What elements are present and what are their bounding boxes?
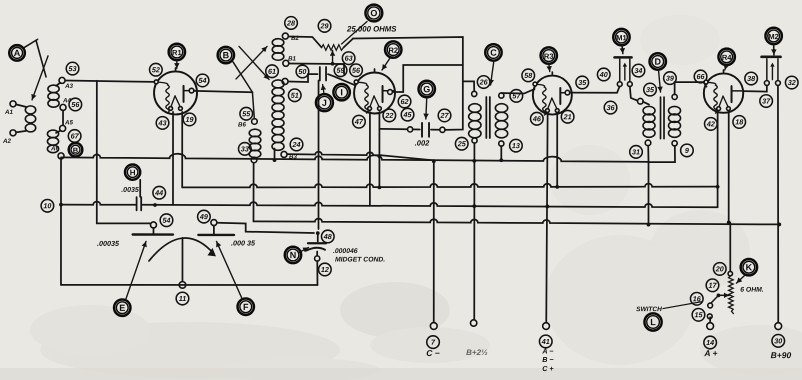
wire grid condenser to tube V2	[328, 74, 356, 85]
label 46	[531, 112, 544, 125]
svg-text:24: 24	[292, 140, 301, 149]
label 14	[704, 336, 717, 349]
bus 4 (B plus)	[253, 219, 779, 225]
svg-text:M2: M2	[768, 32, 778, 41]
label 21	[561, 110, 574, 123]
label 52	[150, 63, 163, 76]
wire branch to IF primary top	[463, 81, 474, 91]
label 55	[240, 107, 253, 120]
arrow F to condenser 49	[216, 241, 242, 298]
switch pointer line	[663, 302, 702, 309]
terminal V1 plate	[189, 88, 194, 93]
arrow D to transformer	[657, 71, 662, 93]
terminal IF primary bottom	[472, 138, 477, 143]
terminal A5	[60, 125, 66, 131]
arrow J to grid condenser	[321, 84, 326, 94]
jack M2 prong 1	[766, 59, 768, 81]
label 20	[713, 263, 726, 276]
label 30	[772, 335, 785, 348]
svg-text:46: 46	[532, 114, 542, 123]
bottom return wire	[61, 284, 318, 286]
wire V2 filament right to bus 2	[378, 112, 380, 187]
label O	[365, 5, 382, 22]
midget condenser top plate	[308, 242, 326, 244]
bus 3 end hook	[714, 206, 718, 208]
label 35 plate	[576, 76, 589, 89]
svg-text:59: 59	[337, 66, 345, 75]
svg-text:49: 49	[199, 212, 208, 221]
terminal B6 bottom	[251, 157, 257, 163]
antenna pointer arrow	[31, 56, 48, 100]
terminal A (antenna binding post)	[9, 45, 25, 61]
terminal 41 A-B-C+	[543, 323, 550, 330]
svg-text:51: 51	[291, 91, 299, 100]
svg-text:B+2½: B+2½	[466, 348, 488, 357]
jack M2 prong 2 tip	[776, 81, 781, 86]
terminal AF secondary bottom	[672, 141, 677, 146]
svg-text:R1: R1	[172, 48, 182, 57]
svg-text:11: 11	[179, 294, 186, 303]
terminal 11	[179, 282, 186, 289]
jack M2 prong 2	[777, 59, 779, 81]
svg-text:67: 67	[71, 131, 80, 140]
wire C- drop	[433, 161, 435, 322]
svg-text:H: H	[130, 168, 136, 177]
svg-text:I: I	[340, 87, 343, 97]
svg-text:A2: A2	[2, 138, 11, 145]
svg-text:38: 38	[747, 74, 755, 83]
label 35 primary	[644, 83, 657, 96]
resistor 25000 ohms	[322, 45, 344, 51]
svg-text:54: 54	[199, 76, 207, 85]
wire .002 to resistor top line	[353, 37, 463, 130]
label 25	[455, 137, 468, 150]
terminal AF primary bottom	[645, 140, 651, 146]
svg-text:62: 62	[401, 97, 409, 106]
arrow G to condenser .002	[423, 98, 429, 119]
wire node 12 to bottom return	[316, 261, 318, 285]
label R1	[169, 44, 185, 60]
label 18	[733, 116, 746, 129]
svg-text:.00035: .00035	[97, 239, 120, 248]
svg-text:O: O	[370, 8, 377, 18]
condenser .002 plate left	[421, 123, 423, 137]
junction C- bus 1	[432, 159, 436, 163]
wire B to junction	[233, 62, 252, 92]
label 57	[510, 90, 523, 103]
arrow N to midget condenser	[299, 247, 309, 252]
svg-text:42: 42	[706, 119, 715, 128]
antenna lead-in wire	[25, 39, 38, 47]
terminal A4	[60, 104, 66, 110]
label 44	[153, 186, 166, 199]
label 45	[401, 108, 414, 121]
svg-text:61: 61	[268, 67, 276, 76]
terminal B (antenna post)	[218, 47, 234, 63]
wire B+90 rail	[777, 85, 779, 322]
wire A5 to coil	[56, 131, 60, 133]
terminal V2 plate	[388, 90, 393, 95]
wire secondary top to grid condenser	[288, 74, 317, 82]
svg-text:35: 35	[578, 78, 587, 87]
svg-text:A1: A1	[4, 109, 13, 116]
svg-text:M1: M1	[616, 33, 626, 42]
svg-text:.000046: .000046	[333, 248, 358, 255]
svg-text:56: 56	[352, 66, 361, 75]
wire resistor left lead	[313, 37, 322, 47]
label D	[650, 53, 666, 69]
wire jack prong 2 to AF transformer primary	[630, 86, 638, 100]
midget condenser stem top	[317, 233, 319, 241]
wire AF return to bus 4	[647, 162, 649, 225]
rheostat wiper junction	[717, 294, 721, 298]
junction 44 on bus 3	[153, 203, 157, 207]
svg-text:13: 13	[512, 141, 520, 150]
label 31	[630, 146, 643, 159]
label 32	[785, 76, 798, 89]
terminal rheostat top	[728, 271, 732, 275]
wire plate up to jack prong	[611, 87, 620, 93]
wire V4 plate to jack M2	[744, 85, 767, 91]
svg-text:27: 27	[440, 111, 450, 120]
bus 3 right segment	[142, 202, 714, 207]
wire B3 to C- line	[288, 152, 382, 156]
jack M1 stem	[620, 45, 625, 53]
terminal 14 A+	[707, 323, 714, 330]
label 26	[477, 76, 490, 89]
grid condenser plate right	[325, 67, 327, 80]
terminal IF secondary bottom	[499, 141, 504, 146]
rheostat 6 ohm	[729, 276, 734, 314]
terminal IF secondary top	[499, 93, 504, 98]
label 39	[664, 72, 677, 85]
grid condenser plate left	[319, 67, 321, 81]
jack M1 prong 1	[619, 59, 621, 82]
label 49	[198, 210, 211, 223]
wire resistor right lead	[344, 38, 354, 47]
jack M1 plug blade	[624, 66, 626, 80]
wire switch to terminal 14	[709, 317, 711, 322]
label G	[419, 81, 435, 97]
junction line A at V2 lead	[378, 154, 382, 158]
midget condenser stem bottom	[316, 251, 318, 256]
label 56 grid	[350, 64, 363, 77]
arrow R4 to tube top	[724, 64, 729, 70]
terminal AF secondary top	[672, 94, 677, 99]
label I	[333, 84, 349, 100]
label J	[316, 94, 333, 111]
svg-text:40: 40	[599, 70, 608, 79]
svg-text:22: 22	[384, 111, 393, 120]
svg-text:53: 53	[69, 64, 77, 73]
svg-text:63: 63	[345, 54, 353, 63]
wire bus 4 down to rheostat	[729, 223, 731, 272]
junction A6 rail / bus 3	[59, 203, 63, 207]
wire V2 lead to condenser .002	[379, 128, 407, 130]
svg-text:47: 47	[354, 117, 364, 126]
svg-text:56: 56	[71, 100, 80, 109]
wire V4 filament right to bus 4	[728, 112, 730, 223]
wire bend down	[343, 64, 345, 74]
arrow C to transformer	[489, 61, 494, 85]
svg-text:41: 41	[541, 337, 550, 346]
wire V3 plate to jack M1	[570, 92, 611, 94]
label M2	[765, 28, 781, 44]
arrow E to condenser 54	[126, 241, 147, 299]
terminal AF primary input	[638, 98, 644, 104]
svg-text:54: 54	[162, 216, 170, 225]
wire IF secondary top to V3 grid	[501, 89, 534, 94]
coil B6 (antenna series coil)	[249, 129, 261, 158]
jack M1 prong 2	[629, 59, 631, 81]
terminal V3 plate	[565, 90, 570, 95]
label 37	[760, 95, 773, 108]
label E	[114, 299, 130, 315]
wire IF primary bottom to B+22 drop	[473, 143, 475, 320]
wire junction to coil B6	[252, 92, 254, 118]
condenser .002 plate right	[428, 123, 430, 137]
tube V3 envelope	[533, 72, 572, 115]
terminal B3	[281, 151, 287, 157]
svg-text:A: A	[14, 48, 21, 58]
svg-text:45: 45	[403, 110, 413, 119]
bus 3 left segment	[61, 202, 136, 205]
svg-text:32: 32	[788, 78, 796, 87]
label 17	[706, 279, 719, 292]
label 54	[160, 214, 173, 227]
label 61	[266, 65, 279, 78]
IF transformer secondary coil	[495, 104, 507, 138]
svg-text:B1: B1	[288, 55, 296, 62]
terminal B2	[282, 33, 288, 39]
label 63	[342, 52, 355, 65]
label 40	[597, 68, 610, 81]
terminal IF primary top	[472, 91, 477, 96]
jack M2 stem	[771, 44, 777, 55]
resistor tap arrow	[330, 50, 335, 62]
jack M2 plug blade	[771, 66, 773, 79]
label 47	[353, 115, 366, 128]
coil B2-B1 (tickler)	[272, 39, 284, 61]
wire AF bottoms join	[648, 146, 675, 163]
label 58	[522, 69, 535, 82]
wire AF secondary to V4 grid	[675, 82, 707, 94]
pointer O to resistor	[342, 21, 368, 44]
wire A4-A5 stem	[62, 110, 64, 125]
label 11	[176, 292, 189, 305]
svg-text:B+90: B+90	[771, 350, 792, 360]
junction B+22 rail bus 1	[472, 159, 476, 163]
junction V2 filament bus 2	[378, 185, 382, 189]
label 24	[290, 138, 303, 151]
crossed arrow 1	[236, 46, 267, 79]
svg-text:C +: C +	[542, 364, 554, 373]
AF transformer primary coil	[643, 106, 655, 137]
svg-text:D: D	[654, 57, 661, 67]
coil A3-A4 (primary)	[48, 85, 59, 107]
svg-text:A +: A +	[703, 348, 717, 358]
svg-text:14: 14	[706, 338, 714, 347]
gang tuning arc	[149, 238, 214, 261]
junction AF return bus 4	[647, 223, 651, 227]
label K	[741, 259, 757, 275]
svg-text:52: 52	[152, 65, 160, 74]
wire coil to A2	[16, 131, 26, 133]
label 15	[692, 309, 705, 322]
tube V2 envelope	[354, 69, 395, 114]
svg-text:34: 34	[634, 66, 642, 75]
switch blade	[710, 296, 718, 304]
label 53	[66, 62, 79, 75]
label 62	[398, 95, 411, 108]
label 51	[288, 89, 301, 102]
coil A5-A6 (secondary)	[47, 130, 58, 153]
svg-text:37: 37	[762, 97, 771, 106]
label 50	[296, 65, 309, 78]
wire .002 right	[431, 129, 440, 131]
wire A6 down left rail	[60, 159, 62, 285]
label 9	[681, 144, 694, 157]
junction V4 lead bus 2	[716, 185, 720, 189]
svg-text:44: 44	[154, 188, 163, 197]
bus 2 (filament plus)	[182, 183, 717, 187]
label N	[285, 247, 301, 263]
wire grid lead A3 to tube V1	[65, 80, 154, 81]
coil secondary long	[272, 80, 284, 150]
junction bus 4 / B+90 rail	[777, 223, 781, 227]
label 42	[705, 118, 718, 131]
svg-text:K: K	[746, 262, 753, 272]
svg-text:SWITCH: SWITCH	[636, 306, 662, 313]
jack M2 bar	[762, 56, 781, 59]
terminal B+22	[470, 320, 476, 326]
svg-text:R4: R4	[722, 53, 732, 62]
svg-text:58: 58	[524, 71, 532, 80]
wire A3 branch down to tuning condenser 54	[97, 81, 150, 224]
svg-text:36: 36	[607, 103, 616, 112]
junction node 48 top	[316, 231, 320, 235]
label 29	[318, 20, 331, 33]
label 7	[427, 336, 440, 349]
terminal secondary top	[282, 78, 288, 84]
svg-text:19: 19	[186, 115, 194, 124]
svg-text:.0035: .0035	[121, 187, 139, 194]
label R2	[385, 41, 401, 57]
svg-text:48: 48	[323, 232, 332, 241]
jack M1 prong 2 tip	[627, 82, 632, 87]
switch contact top	[708, 303, 713, 308]
tap junction	[331, 62, 335, 66]
wire A3 to coil	[56, 83, 60, 86]
label 67	[68, 130, 81, 143]
AF transformer core	[661, 97, 665, 139]
terminal 12	[315, 256, 320, 261]
svg-text:25,000 OHMS: 25,000 OHMS	[346, 24, 397, 33]
label 34 jack	[632, 64, 645, 77]
wire V3 filament left down to A-B-C terminal	[546, 113, 547, 323]
wire V2 filament left to bus 3	[369, 112, 371, 205]
label 22	[383, 109, 396, 122]
svg-text:31: 31	[632, 147, 640, 156]
label L	[644, 313, 661, 330]
svg-text:MIDGET COND.: MIDGET COND.	[335, 256, 385, 263]
svg-text:17: 17	[708, 281, 717, 290]
wire V3 filament right to bus 2	[556, 113, 558, 187]
junction V3 lead bus 3	[545, 205, 549, 209]
midget condenser bottom plate	[306, 248, 325, 251]
terminal A3	[59, 77, 65, 83]
svg-text:50: 50	[298, 67, 306, 76]
label 16	[690, 293, 703, 306]
svg-text:18: 18	[735, 117, 743, 126]
svg-text:A3: A3	[64, 83, 73, 90]
wire grid leak down to node 48	[317, 80, 319, 229]
terminal A2	[10, 130, 16, 136]
svg-text:R2: R2	[388, 46, 398, 55]
label M1	[613, 29, 629, 45]
label F	[238, 299, 254, 315]
jack M1 prong 1 tip	[617, 82, 622, 87]
label 38	[745, 72, 758, 85]
capacitor H plate right	[140, 197, 142, 210]
svg-text:9: 9	[685, 146, 689, 155]
svg-text:B: B	[73, 146, 79, 155]
label 10	[41, 199, 54, 212]
svg-text:R3: R3	[544, 52, 554, 61]
svg-text:.002: .002	[415, 139, 430, 148]
svg-text:10: 10	[43, 201, 51, 210]
wire V1 plate to antenna coil B6	[194, 91, 253, 92]
jack M1 bar	[615, 56, 632, 59]
svg-text:15: 15	[694, 310, 703, 319]
label 36	[604, 101, 617, 114]
tube V4 envelope	[704, 70, 743, 113]
label 41	[539, 335, 552, 348]
wire B2 to resistor	[288, 35, 312, 38]
wire B1 to grid stopper row	[289, 62, 344, 65]
label 48	[321, 230, 334, 243]
svg-text:21: 21	[563, 112, 572, 121]
arrow R3 to tube top	[546, 64, 551, 72]
junction B+22 rail bus 3	[472, 204, 476, 208]
terminal B6 top	[252, 119, 258, 125]
svg-text:C −: C −	[426, 348, 440, 358]
jack M2 prong 1 tip	[764, 81, 769, 86]
label 27	[438, 109, 451, 122]
svg-text:N: N	[290, 250, 297, 260]
svg-text:G: G	[423, 84, 430, 94]
switch contact bottom	[707, 314, 712, 319]
svg-text:66: 66	[697, 72, 706, 81]
wire B6 return to bus 4	[252, 163, 254, 222]
svg-text:29: 29	[320, 21, 329, 30]
label B circled	[69, 143, 83, 157]
variable condenser 54 plate	[133, 233, 173, 235]
wire V1 filament lead right to bus 2	[181, 112, 183, 188]
wire V4 filament left to bus 2/3	[717, 112, 719, 208]
label 13	[510, 139, 523, 152]
svg-text:A4: A4	[62, 97, 71, 104]
wire rotor 11 stem	[181, 238, 183, 282]
svg-text:28: 28	[286, 18, 295, 27]
terminal 7 C-	[430, 323, 437, 330]
terminal B1	[283, 60, 289, 66]
label 19	[183, 113, 196, 126]
label R4	[718, 49, 734, 65]
junction V4 lead bus 4	[727, 221, 731, 225]
arrow R2 to tube top	[382, 58, 390, 70]
capacitor H plate left	[136, 197, 138, 210]
